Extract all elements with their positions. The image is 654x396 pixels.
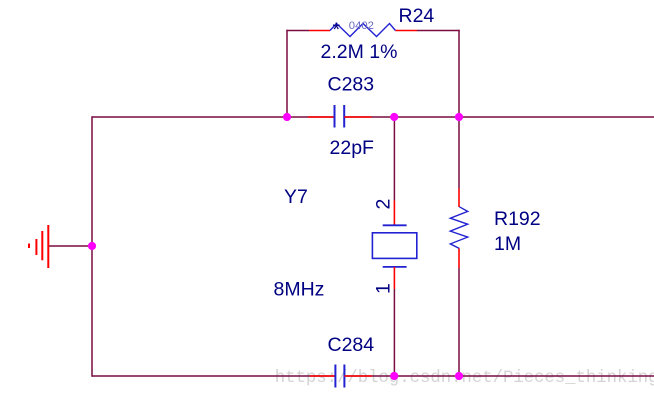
- node junction top-mid: [390, 113, 398, 121]
- wire crystal branch top: [393, 117, 395, 201]
- node junction bottom-mid: [390, 372, 398, 380]
- wire R192 bottom to rail: [458, 268, 460, 376]
- node junction top-left: [283, 113, 291, 121]
- svg-text:2.2M 1%: 2.2M 1%: [321, 41, 398, 63]
- svg-text:1M: 1M: [494, 233, 521, 255]
- svg-text:C283: C283: [328, 73, 375, 95]
- resistor R24: [309, 24, 417, 37]
- node junction top-right: [455, 113, 463, 121]
- node junction bottom-right: [455, 372, 463, 380]
- resistor R192: [450, 189, 467, 269]
- svg-text:22pF: 22pF: [330, 137, 375, 159]
- svg-text:https://blog.csdn.net/Pieces_t: https://blog.csdn.net/Pieces_thinking: [275, 369, 654, 388]
- wire R24 loop top right: [417, 30, 460, 32]
- crystal Y7: [372, 201, 416, 290]
- capacitor C284: [310, 365, 372, 388]
- svg-text:R24: R24: [399, 5, 435, 27]
- wire R24 loop right vertical down to R192: [458, 30, 460, 189]
- svg-text:0402: 0402: [349, 20, 374, 32]
- svg-text:*: *: [333, 19, 341, 41]
- ground: [29, 225, 48, 268]
- svg-text:8MHz: 8MHz: [274, 279, 325, 301]
- wire ground stub: [48, 245, 92, 247]
- wire top rail left of C283: [92, 116, 335, 118]
- wire R24 loop top left: [286, 30, 309, 32]
- wire bottom rail right of C284: [344, 375, 654, 377]
- capacitor C283: [308, 105, 372, 128]
- svg-text:R192: R192: [494, 208, 541, 230]
- wire R24 loop left vertical: [286, 30, 288, 117]
- wire left vertical: [91, 116, 93, 376]
- svg-text:1: 1: [373, 283, 395, 294]
- wire bottom rail left of C284: [92, 375, 335, 377]
- svg-text:C284: C284: [328, 334, 375, 356]
- svg-text:2: 2: [373, 199, 395, 210]
- node junction ground: [88, 242, 96, 250]
- wire top rail right of C283: [344, 116, 654, 118]
- svg-text:Y7: Y7: [284, 186, 308, 208]
- wire crystal branch bottom: [393, 289, 395, 376]
